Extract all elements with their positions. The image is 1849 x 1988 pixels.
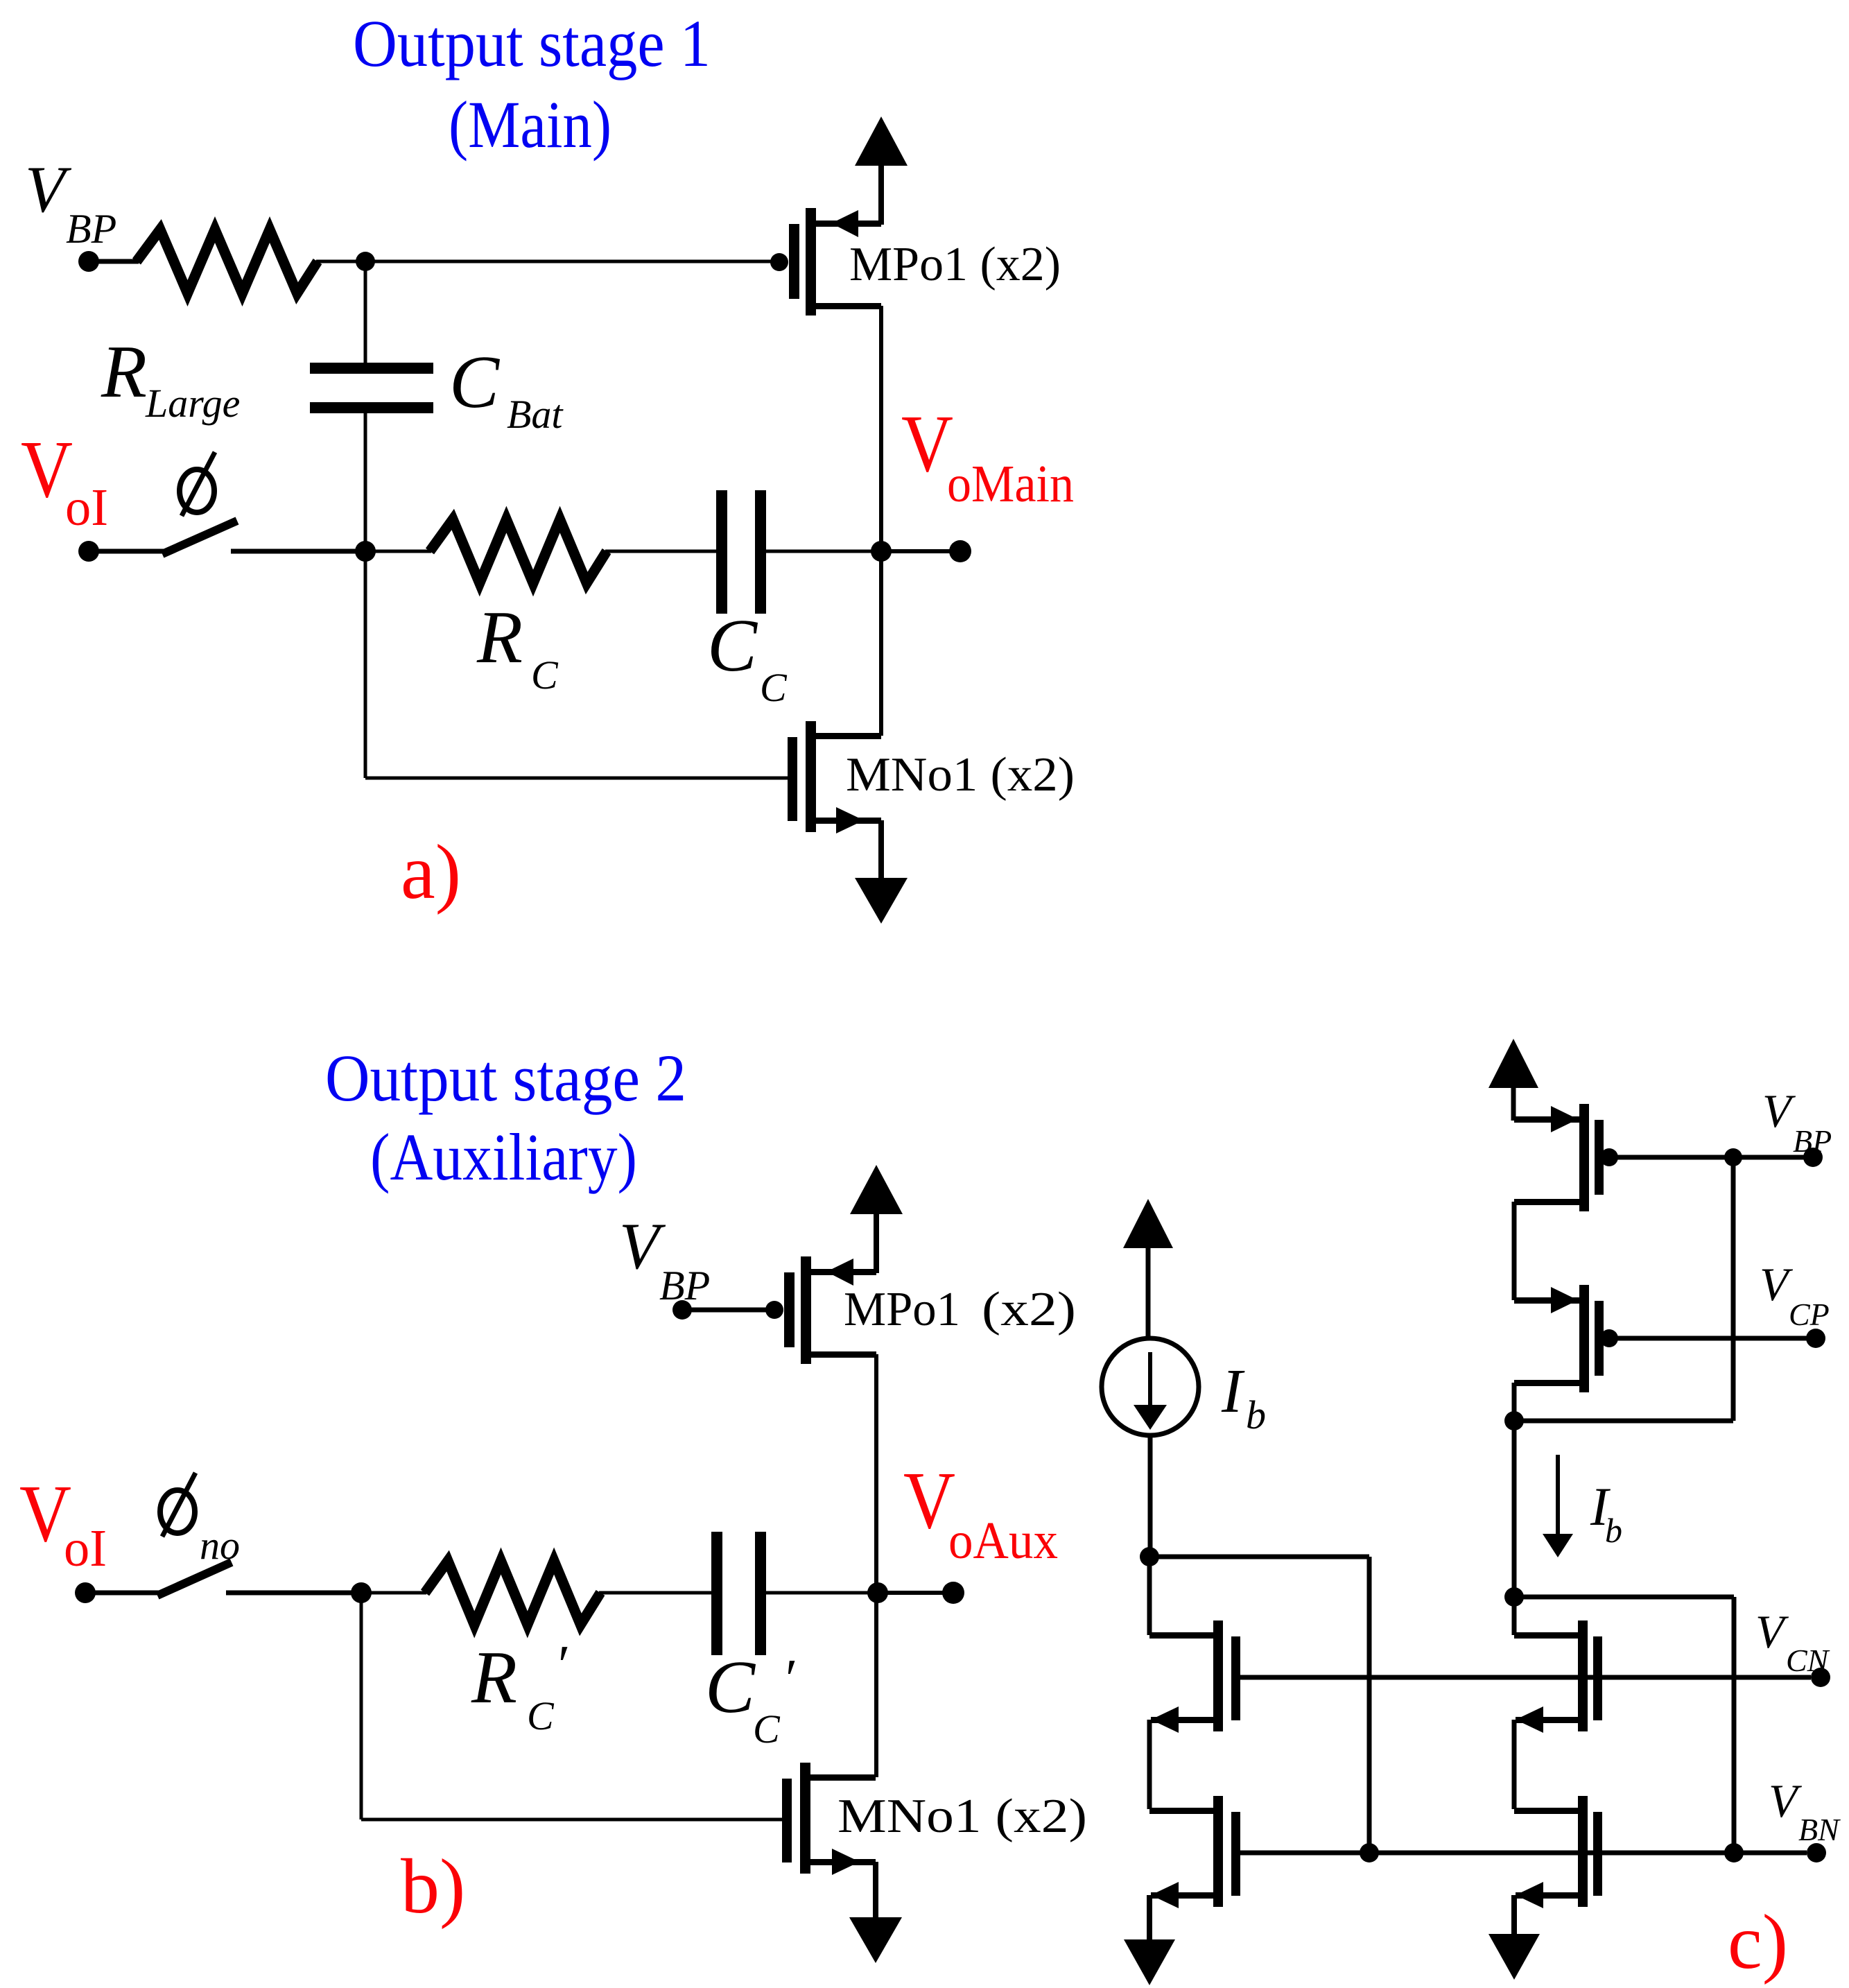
svg-text:C: C — [531, 652, 559, 698]
svg-text:′: ′ — [555, 1635, 568, 1696]
wire output node to MNo1 drain (fig b) — [874, 1593, 878, 1777]
svg-text:c): c) — [1728, 1899, 1788, 1985]
node VBP rail junction dot — [1724, 1148, 1742, 1166]
svg-text:oAux: oAux — [948, 1512, 1058, 1570]
transistor MP2 (fig c VCP) — [1514, 1297, 1579, 1304]
node VBP terminal (fig a) — [78, 251, 99, 272]
wire node B1 to RC — [365, 550, 431, 553]
wire RCp to CCp — [599, 1591, 713, 1595]
wire node C2 to node C3 — [1512, 1421, 1517, 1597]
wire output node to terminal (fig b) — [878, 1591, 953, 1595]
wire node C1 right — [1149, 1555, 1369, 1559]
wire CC to output node — [766, 550, 881, 553]
wire resistor to node A1 — [316, 260, 365, 263]
capacitor CCp — [711, 1532, 722, 1655]
svg-text:(x2): (x2) — [982, 1283, 1076, 1336]
label phi no (fig b) — [160, 1490, 195, 1533]
wire node B2 to MNo1 gate (fig b) — [360, 1593, 363, 1820]
svg-text:Large: Large — [145, 381, 240, 426]
node VBN rail junction dot left — [1360, 1843, 1379, 1862]
svg-text:b: b — [1246, 1392, 1266, 1437]
wire current source to node C1 — [1148, 1435, 1153, 1557]
transistor MN2R (fig c VBN) — [1578, 1796, 1588, 1907]
wire VoI to switch — [98, 549, 170, 554]
wire VCN gate rail — [1240, 1675, 1811, 1680]
svg-text:CN: CN — [1786, 1643, 1830, 1678]
wire VBP to resistor — [98, 259, 139, 264]
power VDD symbol (fig a) — [855, 116, 908, 166]
node VCP terminal dot — [1806, 1329, 1825, 1348]
node VoMain junction dot — [871, 541, 892, 562]
wire MPo1 drain to output node (fig b) — [874, 1354, 878, 1593]
MPo1 gate connection dot (fig a) — [770, 253, 788, 271]
node VBP terminal (fig b) — [672, 1300, 692, 1320]
transistor MN2L (fig c left bottom) — [1213, 1796, 1223, 1907]
svg-text:Output stage 1: Output stage 1 — [353, 6, 711, 80]
wire VoI to switch (fig b) — [94, 1591, 165, 1596]
wire node B1 to MNo1 gate — [364, 551, 367, 778]
svg-text:MPo1 (x2): MPo1 (x2) — [849, 238, 1061, 291]
svg-text:C: C — [753, 1706, 781, 1752]
current arrow Ib (fig c right) — [1556, 1455, 1560, 1537]
svg-text:a): a) — [401, 829, 461, 915]
power VDD symbol (fig c bias) — [1488, 1039, 1538, 1088]
svg-text:Output stage 2: Output stage 2 — [325, 1041, 686, 1115]
node VBN terminal dot — [1807, 1843, 1826, 1862]
transistor MP1 (fig c VBP) — [1514, 1116, 1579, 1123]
transistor MPo1 (fig a) — [789, 224, 799, 299]
wire MPo1 drain to output node — [879, 306, 883, 551]
node VoAux junction dot — [867, 1582, 888, 1603]
ground symbol (fig a) — [855, 878, 908, 924]
wire CCp to output node (fig b) — [766, 1591, 876, 1595]
svg-text:MNo1 (x2): MNo1 (x2) — [846, 748, 1075, 802]
node C2 junction dot — [1504, 1411, 1524, 1431]
wire MP1 drain to MP2 source — [1512, 1202, 1517, 1300]
ground symbol (fig b) — [849, 1917, 902, 1963]
svg-text:MPo1: MPo1 — [844, 1283, 960, 1336]
wire VCP gate rail — [1609, 1336, 1810, 1341]
label phi (fig a) — [180, 469, 214, 512]
svg-text:C: C — [760, 665, 788, 710]
node VBP terminal dot (fig c) — [1803, 1148, 1823, 1167]
wire node C1 to MN1L drain — [1147, 1557, 1152, 1635]
ground symbol (fig c left) — [1124, 1939, 1175, 1985]
wire node A1 to MPo1 gate — [365, 260, 775, 263]
svg-text:R: R — [101, 331, 147, 413]
wire VBP to MPo1 gate (fig b) — [682, 1308, 771, 1313]
node VBN rail junction dot right — [1724, 1843, 1744, 1862]
svg-text:R: R — [476, 596, 523, 679]
svg-text:C: C — [707, 605, 758, 687]
resistor RC — [430, 519, 607, 583]
transistor MN1L (fig c left top) — [1213, 1620, 1223, 1731]
node B2 junction dot — [351, 1582, 372, 1603]
node B1 junction dot — [355, 541, 376, 562]
resistor RLarge — [137, 230, 318, 293]
svg-text:b): b) — [401, 1844, 465, 1930]
MPo1 gate connection dot (fig b) — [765, 1301, 783, 1319]
wire output node to MNo1 drain — [879, 551, 883, 736]
svg-text:C: C — [527, 1693, 555, 1738]
svg-text:V: V — [25, 153, 72, 226]
switch phi_no blade (fig b) — [157, 1562, 232, 1596]
svg-text:R: R — [471, 1636, 517, 1719]
resistor RCp — [425, 1561, 600, 1625]
svg-text:I: I — [1221, 1357, 1245, 1426]
wire VBN gate rail — [1240, 1851, 1807, 1856]
transistor MPo1 (fig b) — [784, 1272, 795, 1347]
svg-text:b: b — [1605, 1511, 1622, 1550]
capacitor CBat — [364, 261, 367, 365]
svg-text:BP: BP — [1793, 1123, 1832, 1159]
svg-text:oI: oI — [65, 478, 108, 537]
svg-text:(Main): (Main) — [449, 87, 611, 162]
node VCN terminal dot — [1811, 1668, 1830, 1687]
wire MN1L source to MN2L drain — [1147, 1720, 1152, 1809]
transistor MNo1 (fig a) — [788, 737, 797, 821]
svg-text:′: ′ — [782, 1649, 795, 1710]
switch phi blade (fig a) — [162, 521, 237, 554]
wire VBP gate rail — [1609, 1155, 1807, 1160]
wire switch to node B1 — [231, 549, 365, 554]
wire node B2 to RCp — [361, 1591, 426, 1595]
svg-text:V: V — [903, 1455, 955, 1546]
svg-text:BN: BN — [1798, 1812, 1841, 1847]
wire MP2 drain to node C2 — [1512, 1383, 1517, 1421]
svg-text:V: V — [901, 398, 953, 489]
transistor MNo1 (fig b) — [782, 1779, 792, 1862]
power VDD symbol (fig c current source) — [1123, 1199, 1173, 1248]
wire node C3 right and down to VBN rail — [1514, 1595, 1734, 1600]
node VoI terminal (fig a) — [78, 541, 99, 562]
svg-text:CP: CP — [1789, 1297, 1830, 1332]
capacitor CC — [716, 490, 727, 614]
node VoAux terminal dot — [942, 1582, 964, 1604]
power VDD symbol (fig b) — [850, 1165, 903, 1214]
node A1 junction dot — [356, 252, 375, 271]
svg-text:C: C — [449, 341, 501, 424]
svg-text:BP: BP — [659, 1263, 710, 1308]
wire down to VBN rail node — [1367, 1557, 1372, 1853]
node C1 junction dot — [1140, 1547, 1159, 1566]
svg-text:BP: BP — [66, 206, 116, 252]
wire node C3 to MN1R drain — [1512, 1597, 1517, 1635]
transistor MN1R (fig c VCN) — [1578, 1620, 1588, 1731]
wire node C2 to VBP rail — [1514, 1419, 1733, 1424]
svg-text:C: C — [705, 1646, 756, 1729]
wire MN1R source to MN2R drain — [1512, 1720, 1517, 1809]
node C3 junction dot — [1504, 1587, 1524, 1607]
ground symbol (fig c right) — [1488, 1934, 1540, 1980]
node VoI terminal (fig b) — [75, 1582, 96, 1603]
wire output node to terminal — [881, 549, 960, 553]
svg-text:no: no — [200, 1523, 240, 1568]
svg-text:MNo1 (x2): MNo1 (x2) — [837, 1790, 1087, 1843]
current source Ib — [1102, 1338, 1199, 1435]
wire RC to CC — [605, 550, 718, 553]
svg-text:(Auxiliary): (Auxiliary) — [370, 1120, 637, 1194]
node VoMain terminal dot — [949, 540, 971, 562]
wire switch to node B2 — [226, 1591, 361, 1596]
svg-text:oMain: oMain — [947, 455, 1074, 513]
svg-text:oI: oI — [64, 1519, 107, 1578]
svg-text:Bat: Bat — [507, 392, 564, 437]
